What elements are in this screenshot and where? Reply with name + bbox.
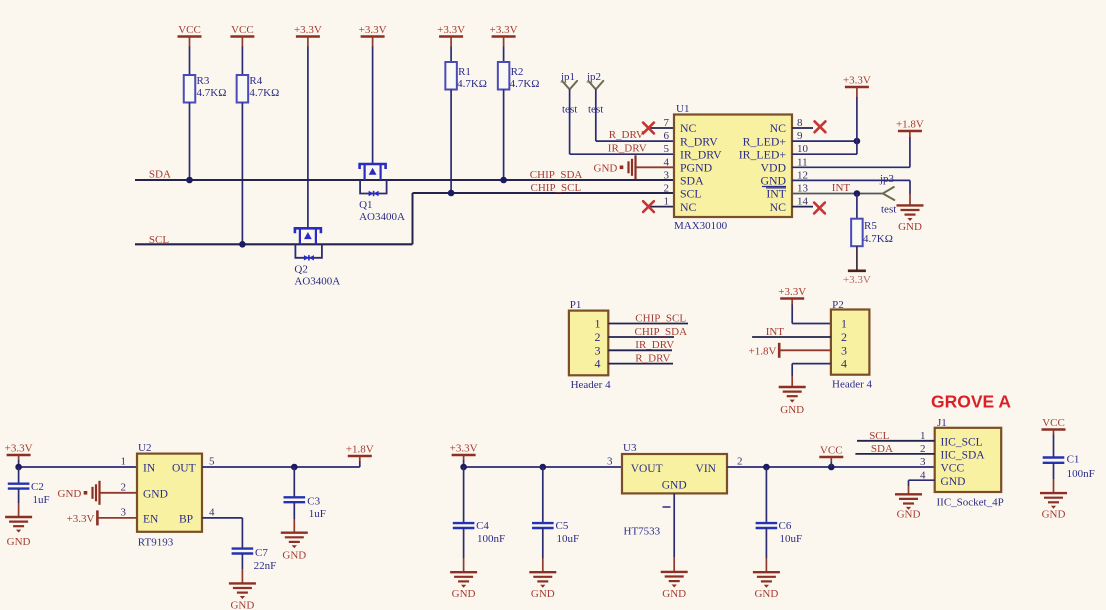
svg-text:R_DRV: R_DRV [680,134,718,148]
svg-text:C3: C3 [307,496,320,508]
wire C4 to GND [463,528,465,558]
svg-text:GND: GND [531,588,555,600]
svg-text:C7: C7 [255,547,268,559]
svg-text:jp3: jp3 [879,173,895,185]
U1 GND underline [762,186,786,188]
wire +3.3V to Q1 gate [372,47,374,165]
svg-text:VOUT: VOUT [631,463,663,475]
capacitor C1 [1043,456,1065,458]
ground C6 [753,571,780,573]
wire P2 pin2 INT [752,336,831,338]
wire R5 to +3.3V [856,246,858,271]
wire P1 pin2 CHIP_SDA [608,336,674,338]
wire J1 pin4 to GND [909,479,935,481]
wire +3.3V to pin9 [856,97,858,141]
svg-text:GND: GND [780,404,804,416]
svg-text:MAX30100: MAX30100 [674,220,728,232]
wire +3.3V to R1 [450,47,452,63]
svg-text:4.7KΩ: 4.7KΩ [197,87,227,99]
svg-text:Header 4: Header 4 [571,379,612,391]
svg-text:C6: C6 [779,520,792,532]
resistor R1 [445,62,457,90]
svg-text:IN: IN [143,463,156,475]
svg-text:INT: INT [766,187,786,201]
svg-text:GND: GND [1042,509,1066,521]
svg-text:2: 2 [121,481,127,493]
svg-text:+3.3V: +3.3V [843,75,871,87]
junction C5 [540,464,547,471]
wire jp2 to pin6 [595,89,597,141]
svg-text:test: test [562,104,577,116]
svg-text:P2: P2 [832,299,844,311]
wire +1.8V to pin11 [909,137,911,167]
wire P2 pin4 to GND [792,363,831,365]
wire U3 VIN rail [727,466,935,468]
ground P2 [779,386,806,388]
wire U1 pin14 stub [792,206,813,208]
wire J1 pin2 SDA [855,453,934,455]
ground C5 [529,571,556,573]
svg-text:4: 4 [841,357,847,371]
svg-text:4.7KΩ: 4.7KΩ [510,78,540,90]
wire VCC stub [830,462,832,467]
capacitor C5 [532,522,554,524]
wire R4 to SCL [241,103,243,245]
regulator U3 HT7533 body [622,454,727,493]
svg-text:AO3400A: AO3400A [294,275,340,287]
wire +3.3V to P2 pin1 [791,305,793,324]
svg-text:GND: GND [230,600,254,610]
svg-text:SCL: SCL [680,187,702,201]
wire P2 pin3 [779,349,831,351]
svg-text:NC: NC [680,121,697,135]
wire C1 to GND [1053,463,1055,479]
ground J1 [895,493,922,495]
ground C4 [450,571,477,573]
wire U3 GND pin [673,493,675,557]
svg-text:test: test [588,104,603,116]
svg-text:IR_DRV: IR_DRV [635,339,674,351]
wire SDA line [135,179,674,181]
svg-text:3: 3 [121,506,127,518]
power +3.3V inverted (R5) [856,270,858,272]
svg-text:test: test [881,204,896,216]
svg-text:2: 2 [841,330,847,344]
junction C2 [15,464,22,471]
svg-text:2: 2 [664,183,670,195]
svg-text:GND: GND [662,588,686,600]
svg-text:GND: GND [662,480,687,492]
wire C3 top [293,467,295,497]
regulator U2 RT9193 body [137,454,202,532]
svg-text:+3.3V: +3.3V [294,24,322,36]
wire C2 to GND [18,489,20,503]
wire R2 to CHIP_SDA [503,90,505,181]
svg-text:6: 6 [664,130,670,142]
svg-text:HT7533: HT7533 [624,526,661,538]
svg-text:+3.3V: +3.3V [5,443,33,455]
svg-text:R1: R1 [458,66,471,78]
svg-text:R4: R4 [249,75,262,87]
wire U2 pin2 [100,492,137,494]
svg-text:U3: U3 [623,442,637,454]
svg-text:+3.3V: +3.3V [450,443,478,455]
svg-text:Header 4: Header 4 [832,379,873,391]
svg-text:R_LED+: R_LED+ [743,134,787,148]
connector P2 Header4 body [831,310,870,375]
wire SCL line [135,243,413,245]
svg-text:1uF: 1uF [309,508,326,520]
svg-text:1: 1 [121,456,127,468]
svg-text:Q2: Q2 [294,263,307,275]
svg-text:VCC: VCC [941,463,965,475]
no-connect X pin14 [814,203,825,214]
svg-text:VCC: VCC [1042,417,1065,429]
junction VCC [828,464,835,471]
resistor R3 [184,75,196,103]
svg-text:7: 7 [664,117,670,129]
svg-text:C4: C4 [476,520,489,532]
svg-text:4.7KΩ: 4.7KΩ [249,87,279,99]
svg-text:2: 2 [595,330,601,344]
svg-text:OUT: OUT [172,463,196,475]
svg-text:+1.8V: +1.8V [346,444,374,456]
svg-text:+3.3V: +3.3V [437,24,465,36]
svg-text:3: 3 [595,343,601,357]
resistor R2 [498,62,510,90]
junction R4/SCL [239,241,246,248]
wire U2 pin4 BP [202,517,242,519]
svg-text:C1: C1 [1067,454,1080,466]
wire +3.3V to R2 [503,47,505,63]
svg-text:1: 1 [595,317,601,331]
wire U1 pin8 stub [792,127,813,129]
svg-text:+3.3V: +3.3V [843,274,871,286]
capacitor C7 [232,547,254,549]
svg-text:GND: GND [754,588,778,600]
wire C2 top [18,467,20,484]
svg-text:R2: R2 [511,66,524,78]
svg-text:GND: GND [58,488,82,500]
svg-text:VCC: VCC [231,24,254,36]
wire U1 pin9 R_LED+ [792,140,857,142]
wire C3 to GND [293,502,295,519]
svg-text:CHIP_SCL: CHIP_SCL [635,313,686,325]
svg-text:SDA: SDA [680,174,704,188]
svg-text:3: 3 [607,456,613,468]
no-connect X pin7 [643,123,654,134]
svg-text:IR_DRV: IR_DRV [680,147,722,161]
svg-text:+3.3V: +3.3V [778,286,806,298]
wire C6 top [765,467,767,523]
svg-text:100nF: 100nF [1067,468,1095,480]
junction pin9 +3.3V [854,138,861,145]
wire U1 pin7 stub [650,127,674,129]
svg-text:4: 4 [209,506,215,518]
U1 INT overline [766,187,786,189]
op-amp U1 MAX30100 body [674,115,792,218]
wire jp1 to pin5 [569,89,571,154]
transistor Q2 AO3400A [295,228,321,244]
connector J1 IIC_Socket_4P body [935,428,1002,492]
wire J1 pin1 SCL [857,440,935,442]
junction R3/SDA [186,177,193,184]
wire +3.3V to Q2 gate [307,47,309,229]
svg-text:SCL: SCL [869,430,889,442]
svg-text:IIC_SDA: IIC_SDA [941,450,986,462]
wire R3 to SDA [189,103,191,181]
capacitor C3 [284,496,306,498]
svg-text:RT9193: RT9193 [138,537,174,549]
wire SCL riser [412,193,414,244]
wire +3.3V to U3 pin3 [463,460,465,467]
svg-text:3: 3 [664,169,670,181]
wire PGND [636,166,674,168]
wire C5 top [542,467,544,523]
svg-text:AO3400A: AO3400A [359,211,405,223]
svg-text:5: 5 [209,456,215,468]
wire U1 pin13 INT [792,193,883,195]
svg-text:Q1: Q1 [359,199,372,211]
svg-text:4: 4 [664,156,670,168]
svg-text:CHIP_SDA: CHIP_SDA [530,169,583,181]
svg-text:GND: GND [143,488,168,500]
wire U2 pin3 EN [97,517,137,519]
wire P1 pin1 CHIP_SCL [608,323,688,325]
connector P1 Header4 body [569,311,608,376]
svg-text:EN: EN [143,513,159,525]
wire U1 pin10 IR_LED+ [792,153,857,155]
svg-text:10uF: 10uF [780,533,803,545]
capacitor C2 [8,483,30,485]
svg-text:U1: U1 [676,103,689,115]
svg-text:IIC_SCL: IIC_SCL [941,436,983,448]
svg-text:4.7KΩ: 4.7KΩ [863,233,893,245]
junction C3 [291,464,298,471]
svg-text:VIN: VIN [696,463,717,475]
svg-text:+3.3V: +3.3V [359,24,387,36]
svg-text:NC: NC [770,121,787,135]
ground C2 [5,516,32,518]
svg-text:VCC: VCC [178,24,201,36]
svg-text:2: 2 [737,456,743,468]
no-connect X pin1 [643,201,654,212]
svg-text:J1: J1 [937,417,947,429]
svg-text:+1.8V: +1.8V [896,119,924,131]
wire C6 to GND [765,528,767,558]
svg-text:22nF: 22nF [254,560,277,572]
svg-text:10uF: 10uF [557,533,580,545]
wire U2 pin5 OUT [202,466,360,468]
wire VCC to R4 [241,47,243,76]
svg-text:CHIP_SDA: CHIP_SDA [635,326,688,338]
svg-text:U2: U2 [138,442,151,454]
capacitor C4 [453,522,475,524]
svg-text:+3.3V: +3.3V [490,24,518,36]
svg-text:GND: GND [760,174,786,188]
transistor Q1 AO3400A [360,164,386,180]
svg-text:3: 3 [841,343,847,357]
svg-text:GND: GND [7,536,31,548]
svg-text:R_DRV: R_DRV [609,129,644,141]
wire C4 top [463,467,465,523]
svg-text:5: 5 [664,143,670,155]
svg-text:NC: NC [680,200,697,214]
svg-text:VCC: VCC [820,445,843,457]
svg-text:NC: NC [770,200,787,214]
wire CHIP_SCL line [413,192,675,194]
junction C4 [460,464,467,471]
svg-text:VDD: VDD [760,161,786,175]
svg-text:GND: GND [594,163,618,175]
resistor R4 [237,75,249,103]
ground U3 [661,571,688,573]
wire VCC to R3 [189,47,191,76]
wire VCC to C1 [1053,435,1055,458]
svg-text:1uF: 1uF [33,494,50,506]
svg-text:GND: GND [941,476,966,488]
svg-text:SDA: SDA [149,169,171,181]
resistor R5 [851,219,863,247]
wire INT to R5 [856,194,858,219]
wire C7 to GND [241,554,243,570]
svg-text:BP: BP [179,513,193,525]
svg-text:4.7KΩ: 4.7KΩ [457,78,487,90]
svg-text:CHIP_SCL: CHIP_SCL [531,182,582,194]
wire U1 pin1 stub [650,206,674,208]
svg-text:R5: R5 [864,220,877,232]
svg-text:R3: R3 [197,75,210,87]
svg-text:IR_LED+: IR_LED+ [739,147,787,161]
wire P1 pin4 R_DRV [608,363,673,365]
svg-text:C2: C2 [31,481,44,493]
svg-text:IIC_Socket_4P: IIC_Socket_4P [937,497,1004,509]
svg-text:+1.8V: +1.8V [749,345,777,357]
U3 GND pin dash [663,506,671,508]
ground C7 [229,582,256,584]
svg-text:GND: GND [898,221,922,233]
junction R2/CHIP_SDA [500,177,507,184]
svg-text:4: 4 [595,357,601,371]
wire C5 to GND [542,528,544,558]
svg-text:+3.3V: +3.3V [67,513,95,525]
wire U1 pin12 GND [792,179,910,181]
no-connect X pin8 [815,121,826,132]
wire +3.3V to U2 pin1 [18,460,20,467]
svg-text:1: 1 [841,317,847,331]
svg-text:SDA: SDA [871,443,893,455]
svg-text:GND: GND [897,509,921,521]
junction R1/CHIP_SCL [448,190,455,197]
ground C1 [1040,492,1067,494]
svg-text:GND: GND [282,550,306,562]
svg-text:INT: INT [766,326,785,338]
capacitor C6 [756,522,778,524]
svg-text:P1: P1 [570,299,582,311]
ground C3 [281,532,308,534]
ground U1 pin12 [897,204,924,206]
svg-text:C5: C5 [556,520,569,532]
junction INT/R5 [854,190,861,197]
svg-text:3: 3 [920,456,926,468]
svg-text:IR_DRV: IR_DRV [608,142,647,154]
svg-text:GND: GND [452,588,476,600]
svg-text:R_DRV: R_DRV [635,353,670,365]
svg-text:100nF: 100nF [477,533,505,545]
svg-text:INT: INT [832,182,851,194]
svg-text:1: 1 [664,196,670,208]
wire R1 to CHIP_SCL [450,90,452,194]
wire P1 pin3 IR_DRV [608,349,672,351]
wire +1.8V stub [359,461,361,467]
svg-text:GROVE A: GROVE A [931,392,1011,412]
svg-text:PGND: PGND [680,161,713,175]
junction C6 [763,464,770,471]
